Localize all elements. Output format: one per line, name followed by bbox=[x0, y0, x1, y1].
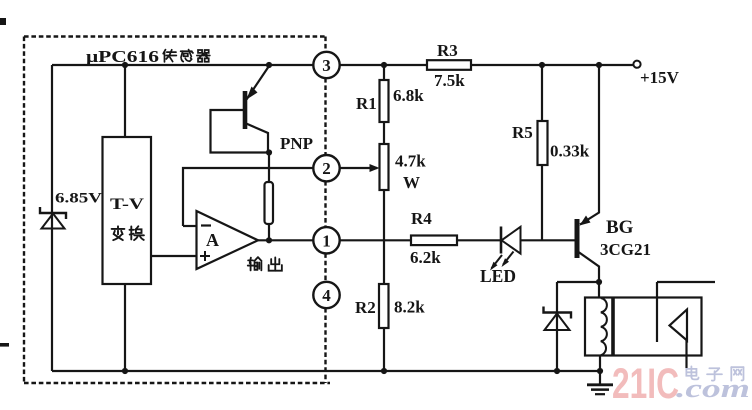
svg-text:LED: LED bbox=[480, 266, 516, 286]
svg-text:6.2k: 6.2k bbox=[410, 248, 441, 267]
svg-text:4: 4 bbox=[322, 286, 331, 305]
svg-text:6.85V: 6.85V bbox=[55, 191, 102, 207]
svg-text:4.7k: 4.7k bbox=[395, 152, 426, 171]
svg-text:7.5k: 7.5k bbox=[434, 71, 465, 90]
svg-text:2: 2 bbox=[322, 159, 331, 178]
svg-text:R5: R5 bbox=[512, 123, 533, 142]
svg-text:R1: R1 bbox=[356, 94, 377, 113]
svg-text:0.33k: 0.33k bbox=[550, 142, 590, 161]
svg-text:.com: .com bbox=[676, 374, 750, 403]
svg-text:A: A bbox=[206, 230, 219, 250]
svg-text:R2: R2 bbox=[355, 298, 376, 317]
svg-text:3CG21: 3CG21 bbox=[600, 240, 651, 259]
svg-text:PNP: PNP bbox=[280, 134, 313, 153]
svg-text:R3: R3 bbox=[437, 41, 458, 60]
svg-text:T-V: T-V bbox=[110, 196, 145, 213]
svg-text:R4: R4 bbox=[411, 209, 432, 228]
svg-text:21IC: 21IC bbox=[612, 360, 679, 408]
svg-text:6.8k: 6.8k bbox=[393, 86, 424, 105]
svg-text:+15V: +15V bbox=[640, 68, 680, 87]
svg-text:3: 3 bbox=[322, 56, 331, 75]
svg-text:8.2k: 8.2k bbox=[394, 298, 425, 317]
svg-text:W: W bbox=[403, 173, 420, 192]
svg-text:μPC616: μPC616 bbox=[86, 47, 159, 66]
svg-text:1: 1 bbox=[322, 231, 331, 250]
svg-text:BG: BG bbox=[606, 217, 634, 238]
